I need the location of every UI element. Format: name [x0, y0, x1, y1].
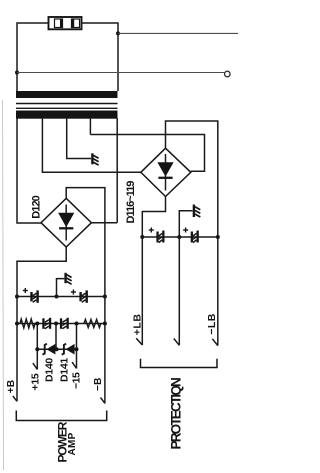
node row2 B	[54, 322, 58, 326]
bracket POWER AMP	[16, 411, 106, 421]
svg-text:−B: −B	[93, 377, 104, 391]
node PA rail right	[103, 295, 107, 299]
arrow -15	[72, 362, 76, 368]
ground center tap	[91, 153, 98, 165]
wire secondary tap4	[89, 118, 91, 135]
wire -LB drop	[217, 237, 219, 346]
wire D120 right corner	[91, 222, 117, 224]
wire D116 bottom corner path	[142, 197, 165, 238]
wire secondary center tap to ground	[67, 118, 91, 159]
node PR rail right	[216, 235, 220, 239]
svg-text:D116~119: D116~119	[125, 181, 137, 224]
node PA rail mid	[55, 295, 59, 299]
wire row2-row3 link C	[76, 324, 78, 350]
wire row2-row3 link B	[55, 324, 57, 350]
node row3 A	[35, 347, 39, 351]
bridge rectifier D120	[41, 198, 91, 247]
bridge rectifier D116~119	[141, 148, 191, 196]
wire AC line B	[17, 72, 224, 74]
AC plug P1	[49, 17, 82, 29]
arrow -B	[101, 398, 105, 404]
resistor R2	[84, 320, 101, 328]
arrow +B	[13, 396, 17, 401]
node row2 right	[103, 322, 107, 326]
svg-text:AMP: AMP	[67, 432, 78, 455]
wire D120 top corner to -B rail	[66, 188, 105, 404]
terminal open circle	[225, 71, 231, 77]
capacitor C1	[23, 288, 39, 303]
transformer T1 secondary winding	[16, 111, 118, 119]
wire AC cross link	[90, 135, 204, 172]
arrow -LB	[212, 339, 218, 346]
wire PA rail	[17, 296, 105, 298]
wire GND drop	[178, 237, 180, 345]
node row3 B	[55, 347, 59, 351]
wire -15 drop	[76, 349, 78, 368]
wire D120 bottom corner to +B rail	[17, 247, 66, 401]
node row2 left	[15, 322, 19, 326]
capacitor C3	[42, 318, 51, 329]
node AC line B junction	[15, 71, 19, 75]
wire secondary tap2 to D116 left	[42, 118, 140, 172]
wire plug right lead	[82, 23, 118, 91]
bracket PROTECTION	[141, 359, 218, 368]
wire +LB drop	[141, 237, 143, 345]
wire AC line A	[118, 32, 238, 34]
node PR rail left	[140, 235, 144, 239]
node AC line A junction	[116, 31, 120, 35]
arrow GND	[174, 339, 180, 346]
svg-text:+15: +15	[30, 373, 42, 390]
svg-text:+B: +B	[6, 380, 17, 394]
svg-text:PROTECTIQN: PROTECTIQN	[169, 378, 184, 450]
wire row2	[17, 323, 105, 325]
resistor R1	[20, 319, 35, 328]
node row2 A	[35, 322, 39, 326]
node row2 C	[75, 322, 79, 326]
wire PR ground stem	[179, 211, 192, 237]
node row3 C	[75, 347, 79, 351]
arrow +LB	[136, 338, 142, 345]
node PR rail mid	[177, 235, 181, 239]
arrow +15	[33, 363, 37, 369]
svg-text:D120: D120	[30, 195, 42, 218]
svg-text:−15: −15	[71, 372, 83, 389]
wire row3	[37, 348, 76, 350]
wire PR rail	[142, 236, 218, 238]
wire PA ground stem	[57, 279, 65, 297]
transformer T1 primary winding	[16, 91, 118, 98]
wire secondary tap1 to D120 left	[17, 118, 41, 223]
capacitor C2	[71, 290, 88, 303]
capacitor C5	[149, 228, 165, 243]
wire secondary right end down to D120 right	[116, 118, 118, 223]
capacitor C4	[60, 318, 69, 329]
wire +15 drop	[36, 349, 38, 369]
wire plug left lead	[17, 23, 48, 91]
wire row2-row3 link A	[36, 324, 38, 350]
svg-text:+LB: +LB	[131, 313, 143, 335]
zener diode D141	[62, 344, 75, 355]
zener diode D140	[43, 344, 56, 355]
transformer core	[16, 103, 118, 105]
svg-text:D140: D140	[43, 358, 55, 382]
capacitor C6	[183, 228, 199, 243]
node PA rail left	[15, 295, 19, 299]
ground PA	[64, 273, 71, 285]
wire D116 top corner loop	[166, 121, 218, 237]
svg-text:D141: D141	[59, 358, 71, 382]
scan edge artifact left	[3, 100, 4, 470]
ground PR	[193, 205, 201, 218]
svg-text:−LB: −LB	[206, 313, 218, 335]
